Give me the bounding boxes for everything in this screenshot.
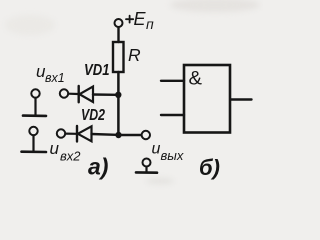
svg-text:R: R bbox=[128, 45, 141, 65]
svg-text:а): а) bbox=[88, 154, 108, 180]
svg-text:VD2: VD2 bbox=[81, 107, 105, 124]
svg-text:вых: вых bbox=[161, 148, 184, 163]
svg-text:VD1: VD1 bbox=[84, 62, 110, 79]
svg-text:E: E bbox=[134, 9, 147, 29]
svg-text:вх1: вх1 bbox=[45, 71, 65, 85]
svg-text:u: u bbox=[50, 139, 60, 158]
svg-text:п: п bbox=[146, 16, 154, 32]
svg-text:вх2: вх2 bbox=[60, 148, 81, 163]
svg-text:б): б) bbox=[199, 155, 220, 180]
svg-text:&: & bbox=[189, 69, 203, 90]
svg-text:u: u bbox=[152, 141, 161, 158]
